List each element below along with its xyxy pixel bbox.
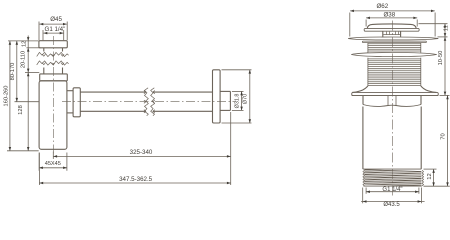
svg-text:12: 12	[22, 41, 28, 47]
svg-text:11: 11	[443, 25, 449, 31]
svg-text:12: 12	[427, 173, 433, 179]
svg-text:10-50: 10-50	[438, 51, 444, 66]
svg-text:Ø31.8: Ø31.8	[234, 94, 240, 109]
svg-text:Ø62: Ø62	[376, 3, 388, 10]
svg-text:Ø43.5: Ø43.5	[383, 202, 400, 207]
svg-text:160-260: 160-260	[4, 86, 10, 107]
svg-text:45X45: 45X45	[45, 161, 61, 167]
svg-text:70: 70	[440, 133, 446, 139]
svg-text:80-170: 80-170	[10, 63, 16, 81]
svg-text:20-110: 20-110	[21, 51, 27, 68]
svg-text:Ø38: Ø38	[383, 11, 395, 18]
svg-text:G1 1/4": G1 1/4"	[382, 187, 402, 193]
svg-text:347.5-362.5: 347.5-362.5	[119, 176, 153, 183]
svg-text:Ø70: Ø70	[243, 94, 249, 104]
svg-text:Ø45: Ø45	[50, 16, 62, 23]
svg-text:128: 128	[18, 105, 24, 115]
svg-text:325-340: 325-340	[130, 149, 153, 156]
svg-text:G1 1/4": G1 1/4"	[45, 26, 66, 33]
